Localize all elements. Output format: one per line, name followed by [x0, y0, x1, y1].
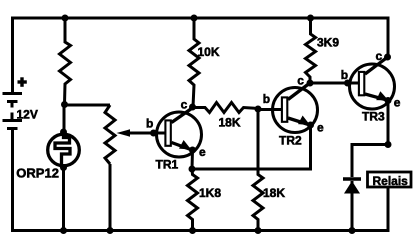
- diode D1: [343, 179, 361, 231]
- junction dot 3K9 top: [307, 15, 314, 22]
- wire bottom ground rail: [13, 129, 389, 231]
- svg-text:e: e: [394, 96, 401, 110]
- resistor 18K horizontal (TR1 c to TR2 b): [193, 103, 259, 113]
- TR2 base lead: [258, 108, 282, 111]
- resistor 3K9: [306, 18, 316, 83]
- svg-text:18K: 18K: [219, 116, 241, 130]
- node A junction dot (top rail / R1): [62, 15, 69, 22]
- resistor R1 (upper left, unlabeled): [60, 18, 71, 104]
- TR2 base junction dot: [255, 106, 262, 113]
- TR3 circle: [350, 64, 395, 109]
- TR3 base bar: [359, 72, 364, 95]
- svg-text:c: c: [376, 49, 383, 63]
- pot wiper arrow: [126, 132, 154, 135]
- potentiometer VR1: [65, 105, 116, 231]
- TR3 base junction dot: [344, 80, 351, 87]
- battery plus sign: [18, 80, 27, 83]
- svg-text:e: e: [317, 121, 324, 135]
- TR2 collector lead: [288, 84, 309, 100]
- TR2 base bar: [282, 97, 287, 121]
- transistor TR1: [146, 98, 206, 172]
- wire R1 bottom to ORP12 top: [63, 105, 66, 133]
- resistor 10K: [189, 18, 199, 107]
- TR2 emitter junction dot: [307, 122, 314, 129]
- TR1 base lead: [154, 132, 166, 135]
- svg-text:e: e: [199, 145, 206, 159]
- wire TR2 collector to TR3 base: [309, 82, 348, 85]
- svg-text:12V: 12V: [17, 108, 38, 122]
- transistor TR2: [255, 74, 325, 148]
- wire relay node to diode branch: [352, 145, 388, 178]
- wire ORP12 bottom to ground rail: [62, 168, 65, 231]
- TR1 base bar: [165, 120, 170, 145]
- TR3 emitter lead with arrow: [365, 94, 388, 100]
- junction dot diode/ground: [349, 227, 356, 234]
- junction dot ORP12/ground: [60, 227, 67, 234]
- svg-text:3K9: 3K9: [317, 36, 339, 50]
- wire pot bottom to ground rail: [109, 164, 112, 231]
- TR3 collector junction dot: [384, 54, 391, 61]
- svg-text:ORP12: ORP12: [16, 166, 59, 181]
- TR1 emitter lead with arrow: [172, 143, 193, 151]
- TR1 circle: [157, 112, 202, 157]
- junction dot TR1 emitter node: [189, 166, 196, 173]
- battery inter-cell stub: [11, 102, 14, 108]
- battery plate long 2: [3, 119, 23, 122]
- junction dot 10K top: [191, 15, 198, 22]
- svg-text:TR2: TR2: [279, 134, 302, 148]
- junction dot relay top node: [385, 141, 392, 148]
- diode cathode bar: [343, 177, 361, 181]
- TR1 base junction dot: [150, 130, 157, 137]
- TR3 emitter junction dot: [385, 97, 392, 104]
- svg-text:b: b: [263, 92, 270, 106]
- junction dot ORP12 bottom: [60, 164, 67, 171]
- LDR ORP12: [48, 132, 80, 168]
- wire node A to pot top: [65, 104, 111, 107]
- battery plate short 2: [7, 127, 18, 130]
- junction dot pot/ground: [107, 227, 114, 234]
- junction dot ORP12 top: [60, 129, 67, 136]
- wire top supply rail: [13, 18, 389, 92]
- relay box: [368, 172, 412, 188]
- TR3 base lead: [348, 82, 359, 85]
- TR2 emitter lead with arrow: [288, 118, 310, 125]
- svg-text:c: c: [181, 98, 188, 112]
- TR1 emitter junction dot: [189, 147, 196, 154]
- TR1 collector lead: [172, 108, 194, 123]
- pot resistive zigzag: [105, 105, 115, 164]
- svg-text:c: c: [297, 74, 304, 88]
- TR3 collector lead: [365, 58, 387, 75]
- wire TR3 emitter down to relay/diode node: [387, 101, 390, 145]
- svg-text:1K8: 1K8: [199, 186, 221, 200]
- svg-text:b: b: [341, 68, 348, 82]
- wire diode to ground rail: [351, 181, 354, 231]
- TR1 collector junction dot: [189, 104, 196, 111]
- svg-text:10K: 10K: [198, 45, 220, 59]
- battery plate long 1: [3, 92, 23, 95]
- svg-text:TR3: TR3: [362, 110, 385, 124]
- TR2 collector junction dot: [307, 80, 314, 87]
- resistor 18K vertical (TR2 base to ground): [253, 109, 263, 231]
- resistor 1K8: [188, 150, 198, 231]
- svg-text:Relais: Relais: [373, 174, 409, 188]
- svg-text:18K: 18K: [263, 186, 285, 200]
- junction dot 1K8/ground: [189, 227, 196, 234]
- diode triangle: [344, 181, 360, 194]
- wire emitter link TR1 e to TR2 e: [192, 125, 311, 169]
- transistor TR3: [341, 49, 401, 124]
- node junction dot (R1 bottom / pot feed): [61, 101, 68, 108]
- svg-text:TR1: TR1: [156, 158, 179, 172]
- TR2 circle: [273, 88, 318, 133]
- junction dot 18K/ground: [255, 227, 262, 234]
- battery plate short 1: [7, 100, 18, 103]
- svg-text:b: b: [146, 117, 153, 131]
- battery B1 12V: [3, 77, 27, 128]
